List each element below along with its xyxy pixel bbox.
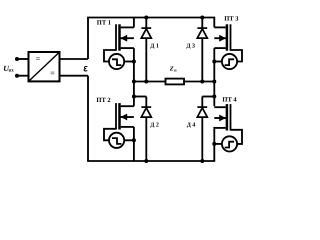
junction generator/source of VT1 [132, 60, 136, 64]
gate drive generator of VT3 [222, 54, 237, 69]
wire D2 bottom [145, 117, 147, 161]
svg-text:ПТ 4: ПТ 4 [222, 97, 237, 104]
wire generator to source bus [214, 61, 222, 63]
wire [17, 58, 29, 60]
transistor VT1 body arrow lead [120, 37, 134, 39]
transistor VT3 channel bar [226, 24, 229, 50]
wire D1 top [145, 18, 147, 29]
wire VT2 source to bottom rail [133, 127, 135, 161]
wire converter output bottom [60, 75, 89, 77]
wire D3 top [201, 18, 203, 29]
junction D1 / top rail [144, 16, 148, 20]
junction D3 / load wire [200, 80, 204, 84]
wire D4 bottom [201, 117, 203, 161]
converter U0 (DC/DC) box [29, 52, 60, 81]
svg-text:Z: Z [169, 65, 174, 72]
transistor VT1 body arrow [120, 35, 127, 42]
diode D2 cathode bar [141, 106, 151, 108]
svg-text:ПТ 3: ПТ 3 [224, 15, 239, 22]
transistor VT2 gate wire [104, 129, 116, 141]
transistor VT4 gate wire [231, 130, 243, 144]
junction D1 / load wire [144, 80, 148, 84]
svg-text:ПТ 1: ПТ 1 [97, 20, 111, 27]
transistor VT3 gate bar [230, 24, 232, 50]
wire converter output top [60, 58, 89, 60]
svg-text:ПТ 2: ПТ 2 [96, 97, 110, 104]
diode D3 triangle [197, 29, 207, 38]
junction generator/source of VT4 [212, 142, 216, 146]
converter '=' mark input side [36, 58, 40, 60]
transistor VT1 drain lead [121, 26, 134, 28]
svg-text:Д 4: Д 4 [187, 123, 196, 129]
junction VT3 source / load [212, 80, 216, 84]
transistor VT4 drain lead [214, 106, 225, 108]
wire generator to source bus [124, 61, 134, 63]
wire D2 top [145, 97, 147, 108]
transistor VT2 source lead [121, 126, 134, 128]
wire branch to D4 [202, 96, 214, 98]
junction generator/source of VT2 [132, 138, 136, 142]
generator waveform glyph [112, 59, 121, 65]
transistor VT2 body arrow [120, 114, 127, 121]
transistor VT1 source lead [121, 47, 134, 49]
transistor VT3 gate wire [231, 50, 243, 62]
junction generator/source of VT3 [212, 60, 216, 64]
wire load node rail [134, 81, 214, 83]
generator waveform glyph [225, 142, 234, 148]
gate drive generator of VT2 [109, 133, 124, 148]
transistor VT4 gate bar [230, 104, 232, 130]
transistor VT1 channel bar [118, 24, 121, 50]
generator waveform glyph [112, 138, 121, 144]
wire top dc rail [87, 17, 215, 19]
wire VT1 source to load node [133, 48, 135, 81]
transistor VT4 source lead [214, 127, 225, 129]
wire VT2 drain riser [133, 82, 135, 107]
generator waveform glyph [225, 59, 234, 65]
wire dc-link left riser bottom [87, 76, 89, 161]
transistor VT4 channel bar [226, 104, 229, 130]
svg-text:н: н [174, 67, 177, 72]
converter diagonal [29, 53, 59, 81]
transistor VT2 body arrow lead [120, 116, 134, 118]
wire generator to source bus [124, 139, 134, 141]
transistor VT3 drain lead [214, 26, 225, 28]
diode D1 triangle [141, 29, 151, 38]
gate drive generator of VT1 [109, 54, 124, 69]
wire VT4 source to bottom rail [213, 127, 215, 161]
svg-text:Д 2: Д 2 [150, 123, 159, 129]
transistor VT4 body arrow [219, 115, 226, 122]
gate drive generator of VT4 [222, 136, 237, 151]
wire D1 bottom [145, 38, 147, 81]
junction D4 / bottom rail [200, 159, 204, 163]
transistor VT3 body arrow [219, 35, 226, 42]
wire D3 bottom [201, 38, 203, 81]
transistor VT1 gate bar [115, 24, 117, 50]
wire VT1 drain riser [133, 18, 135, 28]
diode D2 triangle [141, 108, 151, 117]
transistor VT3 body arrow lead [214, 37, 227, 39]
wire dc-link left riser top [87, 18, 89, 60]
diode D4 triangle [197, 108, 207, 117]
converter '=' mark output side [51, 72, 55, 74]
wire D4 top [201, 97, 203, 108]
transistor VT2 channel bar [118, 103, 121, 129]
diode D1 cathode bar [141, 27, 151, 29]
wire VT3 source to load node [213, 48, 215, 81]
junction VT2 drain / D2 branch [132, 95, 136, 99]
svg-text:Д 1: Д 1 [150, 43, 159, 49]
junction D2 / bottom rail [144, 159, 148, 163]
load Zn resistor [166, 79, 185, 85]
wire VT3 drain riser [213, 18, 215, 28]
transistor VT2 drain lead [121, 105, 134, 107]
diode D3 cathode bar [197, 27, 207, 29]
transistor VT4 body arrow lead [214, 117, 227, 119]
transistor VT2 gate bar [115, 103, 117, 129]
junction VT4 drain / D4 branch [212, 95, 216, 99]
DC source terminal (-) node [15, 74, 19, 78]
transistor VT3 source lead [214, 47, 225, 49]
DC source terminal (+) node [15, 57, 19, 61]
junction VT1 source / load [132, 80, 136, 84]
svg-text:Д 3: Д 3 [186, 43, 195, 49]
wire VT4 drain riser [213, 82, 215, 107]
junction D3 / top rail [200, 16, 204, 20]
wire bottom dc rail [87, 160, 215, 162]
wire [17, 75, 29, 77]
wire branch to D2 [134, 96, 146, 98]
wire generator to source bus [214, 143, 222, 145]
diode D4 cathode bar [197, 106, 207, 108]
transistor VT1 gate wire [104, 50, 116, 62]
svg-text:вх: вх [9, 69, 15, 74]
label EMF epsilon [84, 66, 87, 71]
